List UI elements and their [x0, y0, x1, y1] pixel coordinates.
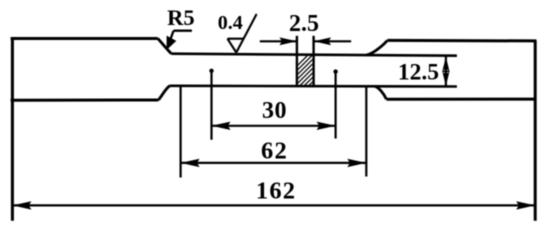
wire: gauge top edge + 12.5 top extension	[171, 54, 457, 56]
2.5 left dim line	[260, 40, 297, 42]
svg-text:30: 30	[262, 98, 287, 124]
2.5 right dim line	[314, 40, 352, 42]
strip side lines / 2.5 extension lines	[296, 36, 298, 86]
surface roughness symbol 0.4	[227, 14, 256, 53]
svg-text:R5: R5	[167, 5, 195, 30]
dimension 2.5	[260, 37, 351, 45]
svg-text:2.5: 2.5	[289, 11, 319, 37]
fillet top-left R5	[158, 38, 172, 53]
62 dim line	[181, 162, 367, 164]
wire: specimen left edge + 162 left extension line	[11, 39, 14, 221]
svg-text:162: 162	[256, 178, 296, 205]
svg-text:62: 62	[261, 138, 288, 165]
dimension 30	[209, 69, 337, 140]
62 right arrowhead	[347, 159, 366, 167]
fillet top-right	[366, 40, 387, 55]
162 right arrowhead	[516, 201, 535, 209]
dimension 12.5 vertical arrow	[442, 56, 449, 86]
R5 leader arrow	[167, 31, 192, 50]
62 left extension line	[180, 86, 182, 177]
162 left arrowhead	[12, 201, 31, 209]
wire: gauge bottom edge + 12.5 bottom extension	[170, 85, 457, 88]
62 left arrowhead	[181, 159, 200, 167]
30 left extension line with dot	[210, 71, 212, 140]
12.5 up arrowhead	[443, 57, 450, 71]
30 right arrowhead	[317, 122, 336, 130]
svg-text:0.4: 0.4	[218, 12, 243, 34]
62 right extension line	[365, 87, 367, 177]
wire: grip bottom edge right	[387, 98, 537, 101]
dimension 62	[181, 86, 367, 177]
svg-text:12.5: 12.5	[398, 59, 439, 85]
wire: grip bottom edge left	[11, 99, 159, 102]
12.5 center tick	[442, 70, 449, 72]
30 left arrowhead	[212, 122, 231, 130]
30 dim line	[212, 125, 336, 127]
hatched strip section	[276, 36, 350, 87]
2.5 left arrowhead (points right)	[279, 37, 297, 45]
30 right extension line with dot	[335, 72, 337, 139]
wire: grip top edge left	[11, 37, 158, 40]
wire: specimen right edge + 162 right extension line	[534, 41, 537, 221]
fillet bottom-right	[375, 86, 387, 99]
2.5 right arrowhead (points left)	[314, 37, 332, 45]
wire: grip top edge right	[387, 39, 536, 43]
12.5 down arrowhead	[443, 72, 450, 86]
fillet bottom-left	[158, 86, 170, 100]
R5 arrowhead	[167, 36, 177, 50]
dimension 162	[12, 201, 535, 209]
162 dim line	[12, 204, 535, 206]
